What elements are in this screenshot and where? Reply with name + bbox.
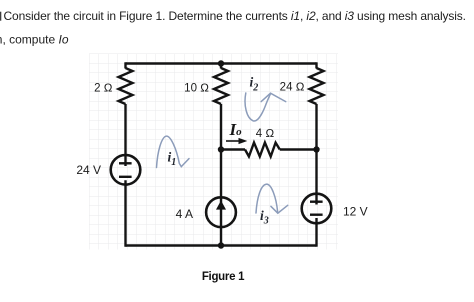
junction node top middle [218, 60, 224, 66]
wire right column lower lead [315, 218, 317, 247]
svg-text:4 Ω: 4 Ω [256, 128, 275, 140]
Io arrow [226, 139, 246, 144]
current source 4A circle [206, 197, 236, 227]
resistor 10ohm [214, 68, 228, 104]
wire right column mid [315, 104, 317, 205]
svg-text:10 Ω: 10 Ω [184, 82, 209, 94]
resistor 2ohm [119, 68, 133, 104]
wire left column upper lead [124, 62, 126, 68]
svg-text:Consider the circuit in Figure: Consider the circuit in Figure 1. Determ… [4, 9, 466, 23]
wire top [126, 62, 317, 64]
wire middle column below resistor [220, 104, 222, 247]
wire right column upper lead [315, 62, 317, 68]
V2 plus bar [310, 200, 323, 202]
V2 minus bar [310, 213, 323, 215]
grid background [89, 54, 338, 250]
mesh arrow i3 [256, 184, 288, 213]
wire middle column [220, 64, 222, 69]
wire middle horizontal left segment [221, 148, 245, 150]
svg-text:12 V: 12 V [343, 204, 368, 218]
junction node mid right [313, 146, 319, 152]
current source arrow [216, 201, 226, 210]
voltage source V2 12V circle [302, 194, 332, 224]
problem text line 1 [0, 9, 466, 23]
resistor 24ohm [310, 68, 324, 104]
svg-text:4 A: 4 A [176, 207, 193, 221]
svg-text:2 Ω: 2 Ω [94, 83, 113, 95]
voltage source V1 24V circle [111, 155, 141, 185]
wire left column lower lead [124, 180, 126, 247]
wire middle horizontal right segment [280, 148, 317, 150]
mesh arrow i1 [157, 136, 190, 167]
svg-text:24 V: 24 V [76, 163, 101, 177]
svg-text:24 Ω: 24 Ω [280, 82, 305, 94]
junction node mid left [218, 146, 224, 152]
resistor 4ohm [245, 143, 280, 157]
junction node bottom middle [218, 242, 224, 248]
wire bottom [126, 244, 317, 246]
V1 minus bar [119, 176, 132, 178]
mesh arrow i2 [245, 93, 286, 121]
svg-text:Figure 1: Figure 1 [202, 271, 245, 283]
wire left column mid lead [124, 104, 126, 166]
V1 plus bar [119, 162, 132, 164]
svg-text:Then, compute Io: Then, compute Io [0, 33, 69, 47]
